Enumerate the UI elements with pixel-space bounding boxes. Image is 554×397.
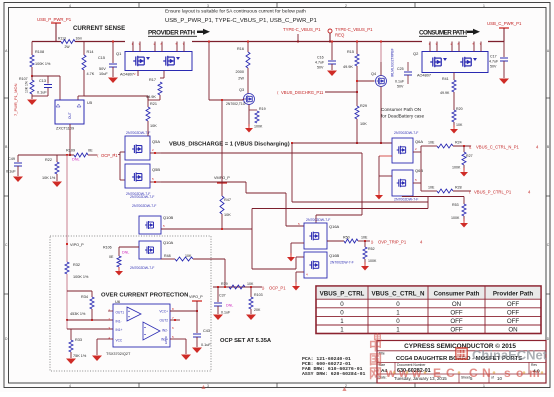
wire Q10B drain row [161, 228, 252, 230]
resistor R27 [463, 146, 465, 152]
svg-text:2N7002DW-7-F: 2N7002DW-7-F [330, 261, 354, 265]
svg-text:IN2-: IN2- [162, 329, 168, 333]
svg-text:VBUS_DISCHRG_P1: VBUS_DISCHRG_P1 [281, 90, 322, 95]
svg-text:of: of [491, 376, 494, 380]
wire ctrl bus lower [252, 208, 428, 210]
svg-text:OUT: OUT [68, 112, 72, 119]
svg-text:TYPE-C_VBUS_P1: TYPE-C_VBUS_P1 [335, 27, 373, 32]
svg-text:OVER CURRENT PROTECTION: OVER CURRENT PROTECTION [101, 293, 188, 299]
svg-text:U6: U6 [115, 299, 121, 304]
title block CYPRESS SEMICONDUCTOR [377, 341, 546, 384]
svg-text:10E: 10E [361, 236, 368, 240]
wire Q3 gate row [209, 99, 243, 101]
wire Q5B drain out [150, 181, 161, 183]
ground under C17 [499, 79, 509, 85]
svg-text:4: 4 [69, 4, 71, 8]
svg-text:ZXCT1109: ZXCT1109 [56, 127, 74, 131]
svg-text:100K 1%: 100K 1% [73, 275, 89, 279]
svg-text:100K 1%: 100K 1% [35, 62, 51, 66]
wire Q16A gate [285, 193, 287, 226]
wire ctrl bus right link [427, 197, 429, 209]
ground under VCC pin [92, 356, 102, 362]
resistor R15 [356, 42, 358, 55]
svg-text:100K: 100K [451, 216, 460, 220]
capacitor C43 [196, 311, 198, 333]
svg-text:R109: R109 [66, 149, 75, 153]
svg-text:1: 1 [396, 309, 400, 316]
svg-text:2N7002DW-7-F: 2N7002DW-7-F [126, 131, 150, 135]
wire main bus left segment [32, 41, 61, 43]
svg-text:2N7002DW-7-F: 2N7002DW-7-F [394, 198, 418, 202]
svg-text:1: 1 [483, 384, 485, 388]
wire Q16A source to ground [291, 242, 304, 244]
svg-text:IN1-: IN1- [116, 320, 122, 324]
wire Q4 source down [380, 87, 382, 144]
svg-text:USB_P_PWR_P1: USB_P_PWR_P1 [37, 17, 72, 22]
svg-text:EPAD: EPAD [164, 335, 168, 344]
svg-text:C17: C17 [490, 55, 497, 59]
wire node row [18, 154, 74, 156]
svg-text:VBUS_P_CTRL_P1: VBUS_P_CTRL_P1 [474, 190, 512, 195]
svg-text:VCC+: VCC+ [159, 310, 168, 314]
svg-text:10: 10 [497, 376, 502, 381]
svg-text:N: N [482, 366, 491, 380]
wire R14 to U5 [78, 95, 84, 97]
svg-text:10E: 10E [428, 141, 435, 145]
ground under C15 [108, 78, 118, 84]
wire Q6 drains to R24 R28 [413, 151, 421, 153]
svg-text:DNL: DNL [226, 304, 233, 308]
svg-text:Q10A: Q10A [163, 240, 174, 245]
resistor R41 [453, 73, 455, 81]
watermark www ECCN com [385, 366, 543, 380]
ground under R22 [52, 182, 62, 188]
svg-text:Q2: Q2 [413, 51, 419, 56]
ground under Q6B gate [378, 191, 380, 195]
svg-text:100K: 100K [368, 259, 377, 263]
svg-text:R52: R52 [368, 247, 375, 251]
wire Q1 top pins [132, 42, 134, 52]
resistor R17 [163, 70, 165, 78]
ground under R53 [463, 219, 465, 223]
svg-text:0: 0 [340, 309, 344, 316]
svg-text:R16: R16 [237, 47, 244, 51]
svg-text:OFF: OFF [450, 327, 463, 334]
svg-text:4: 4 [69, 384, 71, 388]
svg-text:4.7uF: 4.7uF [315, 61, 325, 65]
wire Q16B source to ground [296, 271, 304, 273]
svg-text:R27: R27 [466, 154, 473, 158]
wire sense node to U5 [59, 76, 61, 100]
svg-text:10K: 10K [150, 124, 157, 128]
svg-text:U5: U5 [87, 100, 93, 105]
svg-text:10uF: 10uF [99, 72, 108, 76]
svg-text:OFF: OFF [450, 309, 463, 316]
svg-text:OFF: OFF [507, 318, 520, 325]
svg-text:▲: ▲ [200, 384, 207, 391]
resistor R48 [161, 258, 175, 260]
svg-text:C43: C43 [203, 329, 210, 333]
svg-text:C15: C15 [98, 56, 105, 60]
svg-text:ASSY DRW: 620-60284-01: ASSY DRW: 620-60284-01 [302, 371, 365, 377]
svg-text:OVP_TRIP_P1: OVP_TRIP_P1 [378, 240, 407, 245]
svg-text:VIPO_P: VIPO_P [189, 295, 203, 299]
svg-text:49.9K: 49.9K [343, 65, 353, 69]
resistor R14 [83, 42, 85, 56]
svg-text:Consumer Path: Consumer Path [434, 291, 480, 298]
svg-text:OCP_P1: OCP_P1 [269, 286, 286, 291]
wire Q3 source to ground [248, 105, 250, 127]
transistor Q5B [125, 164, 150, 188]
svg-text:R15: R15 [347, 50, 354, 54]
svg-text:4.7K: 4.7K [87, 72, 95, 76]
svg-text:R33: R33 [75, 338, 82, 342]
svg-text:10K: 10K [456, 123, 463, 127]
svg-text:2N7002DW-7-F: 2N7002DW-7-F [132, 204, 156, 208]
wire OCP gate vertical [66, 154, 68, 156]
ground under Q16B [295, 282, 297, 286]
svg-text:m: m [529, 366, 540, 380]
svg-text:C37: C37 [219, 294, 226, 298]
op-amp U5 ZXCT1109 [55, 100, 84, 124]
wire Q2 top pins [429, 42, 431, 52]
wire gate drop to R47 column [221, 100, 223, 183]
svg-text:AO4807: AO4807 [120, 73, 134, 77]
ground under R103 [246, 315, 256, 321]
ground under R107 [27, 100, 37, 106]
svg-text:TYPE-C_VBUS_P1: TYPE-C_VBUS_P1 [283, 27, 321, 32]
svg-text:VBUS_C_CTRL_N: VBUS_C_CTRL_N [372, 291, 425, 298]
wire R17 to R21 [148, 99, 160, 101]
wire USB_C_PWR_P1 down [503, 28, 505, 42]
svg-text:R47: R47 [224, 198, 231, 202]
wire VCC pin to ground [97, 338, 113, 340]
watermark ChinaECNet logo [455, 347, 548, 363]
wire IN1+ row [67, 328, 113, 330]
watermark red characters [369, 332, 382, 381]
resistor R32 [65, 262, 69, 274]
svg-text:10K 1%: 10K 1% [25, 81, 29, 93]
svg-text:R48: R48 [164, 254, 171, 258]
svg-text:AO4807: AO4807 [417, 74, 431, 78]
ground under Q3 [248, 124, 250, 128]
svg-text:Provider Path: Provider Path [493, 291, 533, 298]
svg-text:Q16B: Q16B [329, 253, 340, 258]
svg-text:R28: R28 [455, 186, 462, 190]
svg-text:2N7002DW-7-F: 2N7002DW-7-F [130, 195, 154, 199]
wire Q4 gate row [357, 80, 375, 82]
wire Q1 bottom pin [137, 71, 139, 77]
svg-text:4.7uF: 4.7uF [489, 60, 499, 64]
svg-text:10m: 10m [76, 37, 83, 41]
svg-text:R21: R21 [150, 102, 157, 106]
svg-text:7_PWR_P1_MON: 7_PWR_P1_MON [13, 83, 18, 116]
svg-text:R20: R20 [456, 107, 463, 111]
ground under IN2+ [181, 355, 191, 361]
svg-text:2N7002DW-7-F: 2N7002DW-7-F [306, 218, 330, 222]
svg-text:CURRENT SENSE: CURRENT SENSE [73, 25, 125, 32]
svg-text:49.9K: 49.9K [440, 91, 450, 95]
svg-text:C49: C49 [8, 157, 15, 161]
svg-text:电: 电 [373, 332, 382, 343]
svg-text:Q5B: Q5B [152, 167, 160, 172]
svg-text:ChinaECNet: ChinaECNet [472, 348, 548, 363]
svg-text:R50: R50 [343, 236, 350, 240]
svg-text:2: 2 [345, 4, 347, 8]
svg-text:CONSUMER PATH: CONSUMER PATH [419, 30, 467, 37]
svg-text:0.1uF: 0.1uF [6, 170, 16, 174]
wire OUT2 stub [170, 319, 180, 321]
ground under C49 [13, 177, 23, 183]
ground under R20 [453, 125, 455, 129]
capacitor C16 [331, 42, 333, 61]
svg-text:VBUS_C_CTRL_N_P1: VBUS_C_CTRL_N_P1 [476, 145, 519, 150]
capacitor C15 [112, 42, 114, 64]
capacitor C49 [17, 155, 19, 162]
ground under C37 [213, 315, 223, 321]
wire VBUS sense vertical [208, 42, 210, 101]
svg-text:网: 网 [369, 366, 382, 381]
svg-text:IN1+: IN1+ [116, 328, 123, 332]
svg-text:ON: ON [508, 327, 517, 334]
svg-text:0: 0 [396, 301, 400, 308]
svg-text:USB_C_PWR_P1: USB_C_PWR_P1 [487, 21, 522, 26]
svg-text:国: 国 [369, 352, 382, 367]
capacitor C37 [217, 287, 219, 302]
svg-text:2N7002DW-7-F: 2N7002DW-7-F [394, 131, 418, 135]
svg-text:0.1uF: 0.1uF [395, 80, 405, 84]
wire VCC+ row to VIPO_P [170, 310, 197, 312]
resistor R108 [31, 42, 33, 56]
svg-text:Q6A: Q6A [415, 139, 423, 144]
wire R32 down (salmon) [66, 274, 68, 320]
wire Q6B gate drop to ground [379, 175, 392, 177]
svg-text:TSX3702/Q2T: TSX3702/Q2T [106, 352, 131, 356]
svg-text:0.1uF: 0.1uF [201, 343, 211, 347]
wire bus Q2 to USB_C [488, 41, 504, 43]
svg-text:0: 0 [340, 301, 344, 308]
svg-text:1: 1 [396, 327, 400, 334]
wire U5 output down [69, 124, 71, 155]
wire Q4 drain from bus [380, 42, 382, 63]
svg-text:R79: R79 [221, 282, 228, 286]
wire Q10A gate [119, 246, 139, 248]
wire ctrl bus upper [292, 201, 428, 203]
wire Q5A drain long row [161, 152, 362, 154]
svg-text:20K: 20K [254, 308, 261, 312]
wire IN1- row [67, 319, 113, 321]
svg-text:Ensure layout is suitable for: Ensure layout is suitable for 5A continu… [165, 9, 306, 15]
svg-text:2N7002,T1G: 2N7002,T1G [226, 102, 246, 106]
wire OUT1 stub [108, 310, 113, 312]
svg-text:10E: 10E [428, 186, 435, 190]
svg-text:OCP SET AT 5.35A: OCP SET AT 5.35A [220, 338, 272, 344]
svg-text:C16: C16 [317, 56, 324, 60]
svg-text:2000: 2000 [236, 70, 244, 74]
svg-text:75K 1%: 75K 1% [73, 354, 87, 358]
resistor R50 10E [327, 240, 344, 242]
wire Q6 gate feed row [292, 142, 392, 144]
wire R21 top link [84, 95, 148, 97]
svg-text:R107: R107 [19, 77, 28, 81]
svg-text:R24: R24 [455, 141, 462, 145]
svg-text:50V: 50V [397, 85, 404, 89]
svg-text:R19: R19 [259, 107, 266, 111]
ground under C16 [327, 71, 337, 77]
svg-text:▲: ▲ [341, 386, 348, 392]
svg-text:0.1uF: 0.1uF [37, 91, 47, 95]
resistor R52 [364, 241, 366, 247]
svg-text:s: s [504, 366, 511, 380]
svg-text:R41: R41 [442, 77, 449, 81]
svg-text:DNL: DNL [72, 158, 80, 162]
wire Q3 gate lead [243, 98, 245, 100]
wire long sense line down (salmon) [66, 155, 68, 262]
svg-text:C: C [469, 366, 478, 380]
svg-text:VCC: VCC [116, 339, 123, 343]
svg-text:50V: 50V [490, 65, 497, 69]
svg-text:1: 1 [340, 318, 344, 325]
port TYPE-C_VBUS_P1 REQ [328, 29, 332, 33]
wire vertical to ctrl bus [291, 143, 293, 202]
ground under R52 [364, 262, 366, 266]
wire bus Q1 to Q2 [192, 41, 422, 43]
svg-text:0E: 0E [88, 149, 93, 153]
ground under R33 [66, 359, 76, 365]
svg-text:w: w [411, 366, 422, 380]
svg-text:2N7002DW-7-F: 2N7002DW-7-F [130, 266, 154, 270]
svg-text:IRLML6302TRPBF: IRLML6302TRPBF [391, 48, 395, 77]
svg-text:R32: R32 [73, 263, 80, 267]
wire R48 to R79 node [193, 258, 225, 260]
wire Q5B drain long row [161, 181, 246, 183]
svg-text:VIPO_P: VIPO_P [70, 243, 84, 247]
note PCA PCB FAB ASSY numbers [302, 356, 365, 377]
svg-text:50V: 50V [317, 66, 324, 70]
svg-text:OUT2: OUT2 [159, 319, 168, 323]
svg-text:10K 1%: 10K 1% [42, 176, 56, 180]
svg-text:R113: R113 [58, 37, 66, 41]
wire Q5A drain out [150, 152, 161, 154]
resistor R34 [91, 291, 93, 297]
wire USB_P_PWR_P1 to bus [55, 23, 57, 42]
svg-text:R14: R14 [87, 50, 94, 54]
wire port to bus [329, 33, 331, 42]
ground under R106 [118, 267, 120, 271]
svg-text:Q1: Q1 [116, 51, 122, 56]
wire IN2+ to ground [170, 338, 186, 340]
resistor R53 [463, 197, 465, 205]
svg-text:0: 0 [396, 318, 400, 325]
svg-text:2W: 2W [238, 77, 244, 81]
svg-text:100K: 100K [452, 166, 461, 170]
svg-text:ON: ON [452, 301, 461, 308]
svg-text:for DeadBattery case: for DeadBattery case [381, 114, 425, 119]
svg-text:R53: R53 [452, 203, 459, 207]
svg-text:R29: R29 [360, 104, 367, 108]
svg-text:VBUS_P_CTRL: VBUS_P_CTRL [320, 291, 365, 298]
svg-text:USB_P_PWR_P1, TYPE-C_VBUS_P1,: USB_P_PWR_P1, TYPE-C_VBUS_P1, USB_C_PWR_… [165, 18, 317, 24]
transistor Q16B [304, 252, 327, 278]
svg-text:R34: R34 [81, 295, 88, 299]
svg-text:C: C [446, 366, 455, 380]
resistor R22 [56, 155, 58, 162]
svg-text:Q10B: Q10B [163, 215, 174, 220]
svg-text:Q4: Q4 [371, 72, 376, 76]
ground under Q16A [290, 253, 292, 257]
wire Q5 gate link [119, 152, 121, 180]
svg-text:453K 1%: 453K 1% [70, 312, 86, 316]
svg-text:1: 1 [340, 327, 344, 334]
resistor R113 current shunt [61, 40, 75, 44]
svg-text:PROVIDER PATH: PROVIDER PATH [148, 30, 195, 37]
svg-text:0.1uF: 0.1uF [221, 311, 231, 315]
transistor Q6B [392, 170, 413, 196]
svg-text:R17: R17 [149, 78, 156, 82]
capacitor C13 [47, 76, 49, 84]
svg-text:OFF: OFF [507, 301, 520, 308]
svg-text:Consumer Path ON: Consumer Path ON [381, 107, 421, 112]
dashed box OVER CURRENT PROTECTION [50, 236, 211, 371]
resistor R103 [250, 287, 252, 297]
svg-text:E: E [433, 366, 441, 380]
wire OCP output row [213, 286, 262, 288]
wire R53 feed row [401, 195, 403, 198]
svg-text:10K: 10K [247, 282, 254, 286]
svg-text:3: 3 [207, 384, 209, 388]
svg-text:R22: R22 [45, 158, 52, 162]
svg-text:50V: 50V [99, 67, 106, 71]
wire to Q16B gate [252, 268, 296, 270]
svg-text:Q16A: Q16A [329, 224, 340, 229]
svg-text:2W: 2W [65, 45, 71, 49]
svg-text:o: o [516, 366, 523, 380]
wire ctrl bus left drop [251, 209, 253, 270]
svg-text:1: 1 [483, 4, 485, 8]
svg-text:Q3: Q3 [239, 88, 244, 92]
resistor R19 [249, 109, 257, 111]
svg-text:OFF: OFF [507, 309, 520, 316]
svg-text:C25: C25 [397, 67, 404, 71]
wire bus shunt to Q1 [75, 41, 125, 43]
wire sense node [32, 75, 60, 77]
svg-text:OFF: OFF [450, 318, 463, 325]
svg-text:C13: C13 [39, 79, 46, 83]
svg-text:OCP_P1: OCP_P1 [101, 153, 118, 158]
capacitor C17 [503, 42, 505, 58]
table VBUS control truth table [316, 286, 541, 334]
svg-text:0E: 0E [109, 255, 114, 259]
svg-text:OUT1: OUT1 [116, 311, 125, 315]
svg-text:Q5A: Q5A [152, 139, 160, 144]
wire VBUS_DISCHRG row [325, 91, 357, 93]
svg-text:3: 3 [207, 4, 209, 8]
svg-text:R106: R106 [103, 246, 112, 250]
svg-text:R108: R108 [35, 50, 44, 54]
svg-text:10K: 10K [224, 213, 231, 217]
transistor Q10A [139, 241, 161, 259]
resistor R33 [70, 329, 72, 340]
ground under R27 [463, 168, 465, 172]
svg-text:R103: R103 [254, 293, 263, 297]
svg-text:VBUS_DISCHARGE = 1 (VBUS Disch: VBUS_DISCHARGE = 1 (VBUS Discharging) [169, 142, 290, 148]
resistor R16 [247, 42, 249, 53]
svg-text:100K: 100K [254, 125, 263, 129]
svg-text:10K: 10K [360, 122, 367, 126]
ground under C43 [192, 348, 202, 354]
svg-text:Q6B: Q6B [415, 168, 423, 173]
svg-text:REQ: REQ [335, 33, 345, 38]
